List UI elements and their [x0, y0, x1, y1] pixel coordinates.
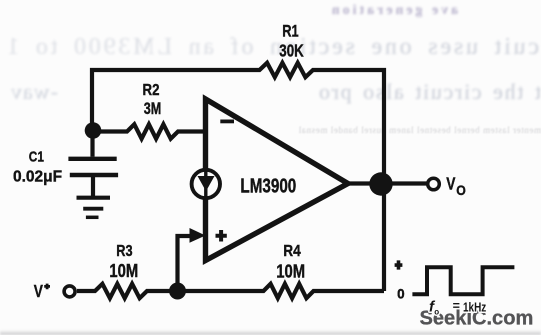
svg-text:R3: R3 [116, 243, 132, 261]
svg-text:o: o [434, 308, 439, 317]
svg-text:3M: 3M [144, 101, 162, 119]
svg-text:R1: R1 [282, 22, 298, 41]
svg-text:V: V [446, 174, 455, 194]
svg-text:10M: 10M [276, 261, 305, 282]
svg-text:10M: 10M [109, 260, 138, 281]
svg-text:V: V [34, 281, 43, 301]
svg-text:R2: R2 [143, 82, 160, 99]
svg-text:0: 0 [397, 286, 405, 301]
svg-text:LM3900: LM3900 [240, 174, 296, 196]
svg-text:30K: 30K [279, 42, 304, 61]
svg-text:O: O [456, 182, 466, 198]
svg-text:R4: R4 [283, 243, 301, 260]
svg-text:C1: C1 [29, 148, 45, 165]
svg-text:0.02μF: 0.02μF [13, 169, 62, 186]
svg-text:1kHz: 1kHz [463, 301, 486, 314]
svg-text:=: = [453, 299, 460, 313]
